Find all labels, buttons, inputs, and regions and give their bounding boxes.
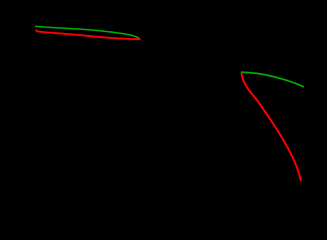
red curve upper-left (lower branch of lens): [36, 29, 140, 39]
green curve right (shallow branch): [241, 72, 304, 87]
red curve right (steep branch): [241, 73, 301, 181]
green curve upper-left (upper branch of lens): [35, 26, 139, 38]
